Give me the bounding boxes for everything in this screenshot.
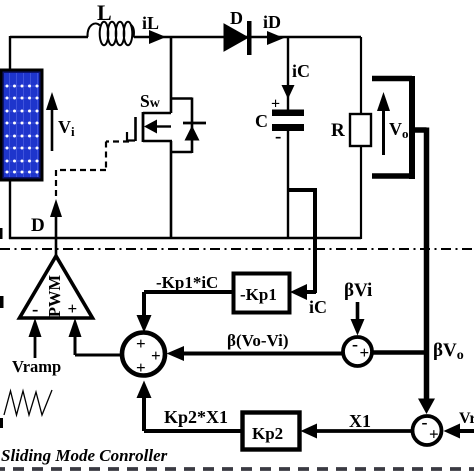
- wire bottom rail: [9, 237, 361, 240]
- drain lead: [170, 37, 173, 113]
- gate bar: [134, 117, 137, 141]
- gain block -Kp1: [234, 274, 290, 313]
- Vo sense bracket: [372, 76, 415, 179]
- gain block Kp2: [243, 413, 300, 450]
- wire capacitor to bottom rail: [287, 131, 289, 239]
- source lead down: [170, 141, 173, 239]
- svg-text:iD: iD: [263, 12, 281, 32]
- op-amp PWM comparator: [20, 256, 93, 320]
- svg-text:Kp2*X1: Kp2*X1: [164, 407, 228, 427]
- arrow iC: [282, 85, 295, 99]
- svg-text:L: L: [97, 0, 112, 25]
- svg-text:-: -: [352, 334, 358, 354]
- svg-text:+: +: [429, 425, 439, 444]
- svg-text:Kp2: Kp2: [252, 424, 283, 443]
- svg-text:iC: iC: [309, 297, 327, 317]
- drain branch to body diode: [170, 97, 192, 100]
- inductor L: [87, 22, 133, 45]
- arrow Vi: [46, 92, 58, 151]
- wire Vo tap to feedback: [414, 127, 427, 133]
- summing junction S1 main: [122, 333, 165, 378]
- arrow betaVo into S3: [418, 399, 435, 415]
- svg-text:βVi: βVi: [344, 280, 372, 301]
- channel top: [143, 112, 171, 115]
- border left dash mark 1: [0, 228, 3, 239]
- svg-text:β(Vo-Vi): β(Vo-Vi): [227, 331, 289, 350]
- gate lead: [126, 132, 135, 141]
- svg-text:-Kp1*iC: -Kp1*iC: [156, 273, 218, 292]
- wire beta(Vo-Vi) to summing: [167, 346, 348, 361]
- svg-text:+: +: [68, 299, 78, 318]
- svg-text:iL: iL: [142, 13, 159, 33]
- svg-text:Vramp: Vramp: [12, 357, 61, 376]
- svg-text:-: -: [32, 299, 38, 320]
- wire output drop to R: [360, 37, 362, 114]
- wire left input vertical: [9, 36, 11, 69]
- svg-text:D: D: [31, 215, 45, 236]
- svg-text:+: +: [271, 96, 280, 113]
- wire -Kp1 output to summing: [137, 292, 234, 333]
- source arrow: [155, 125, 171, 127]
- svg-text:+: +: [151, 346, 161, 365]
- svg-text:D: D: [230, 8, 243, 28]
- arrow iL: [149, 30, 166, 44]
- svg-text:C: C: [255, 111, 268, 131]
- svg-text:Vref: Vref: [459, 410, 474, 427]
- wire diode to capacitor node: [287, 37, 289, 110]
- arrow iC into -Kp1: [290, 284, 307, 300]
- wire Kp2 output to summing bottom: [137, 381, 243, 432]
- wire top rail: [10, 36, 361, 38]
- border bottom dashed: [0, 467, 474, 471]
- summing junction S3: [413, 412, 442, 445]
- capacitor C: [272, 110, 304, 132]
- body diode triangle: [185, 126, 200, 141]
- svg-text:R: R: [331, 120, 345, 141]
- border left dash mark 2: [0, 296, 4, 308]
- wire PV bottom vertical: [9, 181, 11, 239]
- MOSFET switch Sw: [126, 37, 206, 239]
- gate drive dashed wire: [56, 142, 129, 201]
- arrow iD: [267, 31, 284, 45]
- svg-text:iC: iC: [292, 61, 310, 81]
- svg-text:-Kp1: -Kp1: [240, 285, 277, 304]
- wire beta-Vo vertical: [424, 128, 430, 401]
- solar panel PV: [1, 70, 42, 180]
- summing junction S2: [343, 334, 372, 366]
- ramp waveform: [4, 390, 52, 415]
- body diode cathode bar: [183, 122, 206, 125]
- channel left vertical: [142, 112, 145, 142]
- svg-text:-: -: [422, 412, 428, 432]
- svg-text:Sliding Mode Conroller: Sliding Mode Conroller: [1, 446, 168, 465]
- wire iC sense tap: [289, 188, 316, 293]
- wire R to bottom rail: [360, 146, 362, 239]
- wire summing to PWM plus input: [69, 318, 122, 355]
- arrow D gate signal: [50, 199, 62, 256]
- svg-text:+: +: [136, 358, 146, 377]
- arrow betaVi input: [351, 302, 365, 336]
- svg-text:+: +: [360, 343, 370, 362]
- border left dash mark 3: [0, 418, 3, 428]
- svg-text:+: +: [136, 334, 146, 353]
- svg-text:PWM: PWM: [45, 274, 64, 317]
- svg-text:X1: X1: [349, 411, 371, 431]
- bottom branch to body diode: [170, 151, 192, 154]
- arrow Vo: [377, 92, 390, 155]
- resistor R: [350, 114, 371, 146]
- arrow Vref input: [444, 424, 474, 439]
- wire S2 output to betaVo line: [372, 350, 426, 354]
- separator dash-dot line: [0, 248, 474, 250]
- diode D: [224, 21, 252, 55]
- body diode vertical: [191, 98, 194, 154]
- wire S3 output X1 to Kp2: [301, 424, 413, 439]
- arrow Vramp input: [29, 318, 42, 358]
- svg-text:-: -: [275, 126, 281, 147]
- channel bottom: [143, 140, 172, 143]
